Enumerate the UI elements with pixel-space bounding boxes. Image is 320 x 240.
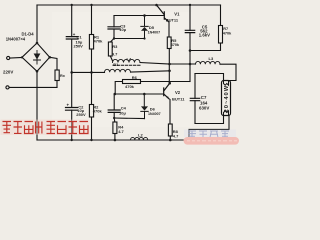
capacitor C5 bbox=[185, 30, 194, 32]
watermark pink banner bbox=[184, 137, 240, 145]
transistor V1 bbox=[157, 5, 169, 22]
svg-text:630V: 630V bbox=[199, 106, 209, 111]
transistor V1 emitter vertical bbox=[168, 22, 170, 37]
svg-text:10µ: 10µ bbox=[119, 110, 126, 115]
svg-text:470k: 470k bbox=[93, 108, 103, 113]
svg-text:B1: B1 bbox=[113, 62, 119, 67]
wire C5 column stub to R6 row bbox=[189, 64, 191, 82]
capacitor C2 bbox=[66, 108, 78, 111]
red caption halo wash bbox=[1, 120, 90, 136]
wire L1 to lamp top-right pin bbox=[220, 64, 236, 80]
svg-text:V1: V1 bbox=[174, 11, 180, 16]
wire C7 column bbox=[194, 74, 196, 124]
transistor V1 emitter arrow bbox=[166, 19, 169, 22]
svg-text:R3: R3 bbox=[112, 44, 118, 49]
transformer B1 primary winding (bottom coil) bbox=[104, 69, 130, 72]
wire AC live to bridge left vertex bbox=[10, 57, 22, 60]
capacitor C4 bbox=[108, 110, 120, 112]
wire C5 branch from rail bbox=[189, 5, 191, 64]
svg-text:L2: L2 bbox=[138, 133, 143, 138]
svg-text:BUT11: BUT11 bbox=[166, 17, 179, 22]
svg-text:4.7: 4.7 bbox=[173, 133, 179, 138]
wire bridge right vertex to resistor Rx bbox=[50, 57, 57, 70]
diode D6 triangle bbox=[141, 106, 148, 110]
red caption fake glyphs (electronic ballast circuit diagram) bbox=[3, 122, 89, 134]
watermark halo wash bbox=[184, 130, 236, 138]
wire capacitor midpoint row bbox=[72, 71, 105, 73]
wire R8 bottom to rail bbox=[169, 136, 171, 140]
wire C3 branch bbox=[113, 16, 115, 39]
resistor R1 bbox=[89, 35, 93, 50]
svg-text:1N4007: 1N4007 bbox=[148, 31, 161, 35]
svg-text:V2: V2 bbox=[175, 90, 181, 95]
wire B1 top winding to midpoint vertical bbox=[140, 63, 170, 65]
svg-text:D6: D6 bbox=[150, 107, 156, 112]
svg-text:R6: R6 bbox=[132, 75, 138, 80]
wire C3/D5 bottom row bbox=[114, 38, 145, 40]
diode D6 bbox=[141, 94, 148, 119]
wire R7 bottom to C5 junction bbox=[190, 43, 221, 51]
wire bottom rail bbox=[37, 139, 189, 141]
wire C7 bottom to lamp bottom-left pin bbox=[195, 116, 224, 124]
svg-text:1.6kV: 1.6kV bbox=[199, 33, 210, 38]
wire lamp bottom-right pin outer loop to rail bbox=[189, 116, 229, 141]
svg-text:4.7: 4.7 bbox=[118, 129, 124, 134]
resistor R6 bbox=[123, 80, 141, 84]
terminal AC neutral bbox=[6, 86, 9, 89]
svg-text:+: + bbox=[67, 102, 70, 107]
wire B1 primary to midpoint vertical bbox=[131, 71, 170, 72]
svg-text:220V: 220V bbox=[3, 70, 13, 75]
svg-text:R7: R7 bbox=[223, 27, 228, 31]
lamp bottom filament bbox=[224, 111, 229, 116]
wire lamp top-left pin loop to C7 bbox=[195, 74, 224, 81]
wire V2 base row bbox=[115, 93, 164, 95]
wire midpoint vertical R5 to V2 collector bbox=[168, 49, 170, 84]
svg-text:L4: L4 bbox=[127, 56, 132, 61]
wire V1 base row bbox=[114, 15, 164, 17]
wire rail right corner down to R7 bbox=[220, 5, 222, 26]
wire C4/D6 bottom row bbox=[114, 117, 144, 120]
wire R6 left corner to V2 base node bbox=[115, 82, 122, 95]
wire top rail bbox=[37, 4, 221, 6]
svg-text:250V: 250V bbox=[74, 44, 84, 49]
svg-text:470k: 470k bbox=[125, 84, 135, 89]
capacitor C1 bbox=[66, 37, 78, 39]
svg-text:470k: 470k bbox=[223, 32, 232, 36]
wire rail left corner down to bridge top vertex bbox=[36, 5, 38, 43]
capacitor C7 bbox=[190, 98, 199, 100]
wire R6 right to midpoint stub bbox=[141, 81, 191, 83]
banner light text bbox=[187, 140, 237, 142]
resistor R7 bbox=[219, 26, 223, 44]
inductor L1 bbox=[196, 61, 220, 64]
resistor Rx bbox=[55, 70, 59, 81]
svg-text:D5: D5 bbox=[149, 25, 155, 30]
svg-text:1N4007×4: 1N4007×4 bbox=[6, 37, 26, 42]
transistor V2 emitter vertical bbox=[169, 100, 171, 125]
transistor V2 bbox=[164, 83, 170, 99]
svg-text:10µ: 10µ bbox=[119, 27, 126, 32]
transistor V2 emitter arrow bbox=[167, 96, 170, 99]
transformer B1 feedback winding (top coil) bbox=[113, 59, 141, 62]
wire R1/R2 divider branch bbox=[91, 5, 93, 140]
svg-text:470k: 470k bbox=[94, 39, 104, 44]
svg-text:D1-D4: D1-D4 bbox=[22, 31, 35, 36]
resistor R8 bbox=[168, 124, 172, 136]
wire midpoint row bbox=[170, 63, 196, 65]
wire bridge bottom vertex down to bottom rail bbox=[36, 71, 38, 140]
svg-text:1N4007: 1N4007 bbox=[148, 112, 161, 116]
terminal AC live bbox=[7, 56, 10, 59]
diode D5 triangle bbox=[141, 27, 148, 31]
svg-text:470k: 470k bbox=[171, 43, 180, 47]
wire AC neutral horizontal bbox=[9, 86, 57, 88]
bridge internal diode triangle bbox=[34, 54, 41, 60]
svg-text:4.7: 4.7 bbox=[112, 51, 118, 56]
inductor L2 on bottom rail bbox=[131, 137, 148, 140]
svg-text:L3: L3 bbox=[209, 56, 214, 61]
wire C1/C2 capacitor-divider branch bbox=[71, 5, 73, 140]
resistor R4 with leads bbox=[113, 118, 116, 122]
bridge rectifier D1-D4 diamond bbox=[22, 43, 50, 71]
svg-text:+: + bbox=[73, 32, 76, 37]
resistor R3 with leads bbox=[110, 39, 114, 43]
wire C4 branch bbox=[113, 94, 115, 118]
diode D5 bbox=[141, 16, 148, 39]
fluorescent lamp tube bbox=[222, 81, 231, 116]
svg-text:250V: 250V bbox=[76, 112, 86, 117]
watermark faint blue glyphs bottom right bbox=[188, 131, 229, 138]
resistor R2 bbox=[89, 105, 93, 118]
lamp top filament bbox=[224, 81, 229, 86]
transformer B1 core bbox=[113, 64, 141, 66]
wire Rx bottom to AC neutral wire bbox=[56, 81, 58, 88]
svg-text:BUT11: BUT11 bbox=[172, 96, 185, 101]
capacitor C3 bbox=[108, 27, 120, 29]
svg-text:20~40W: 20~40W bbox=[224, 85, 230, 113]
bridge internal diode symbol bbox=[34, 51, 41, 65]
resistor R5 bbox=[167, 37, 171, 49]
